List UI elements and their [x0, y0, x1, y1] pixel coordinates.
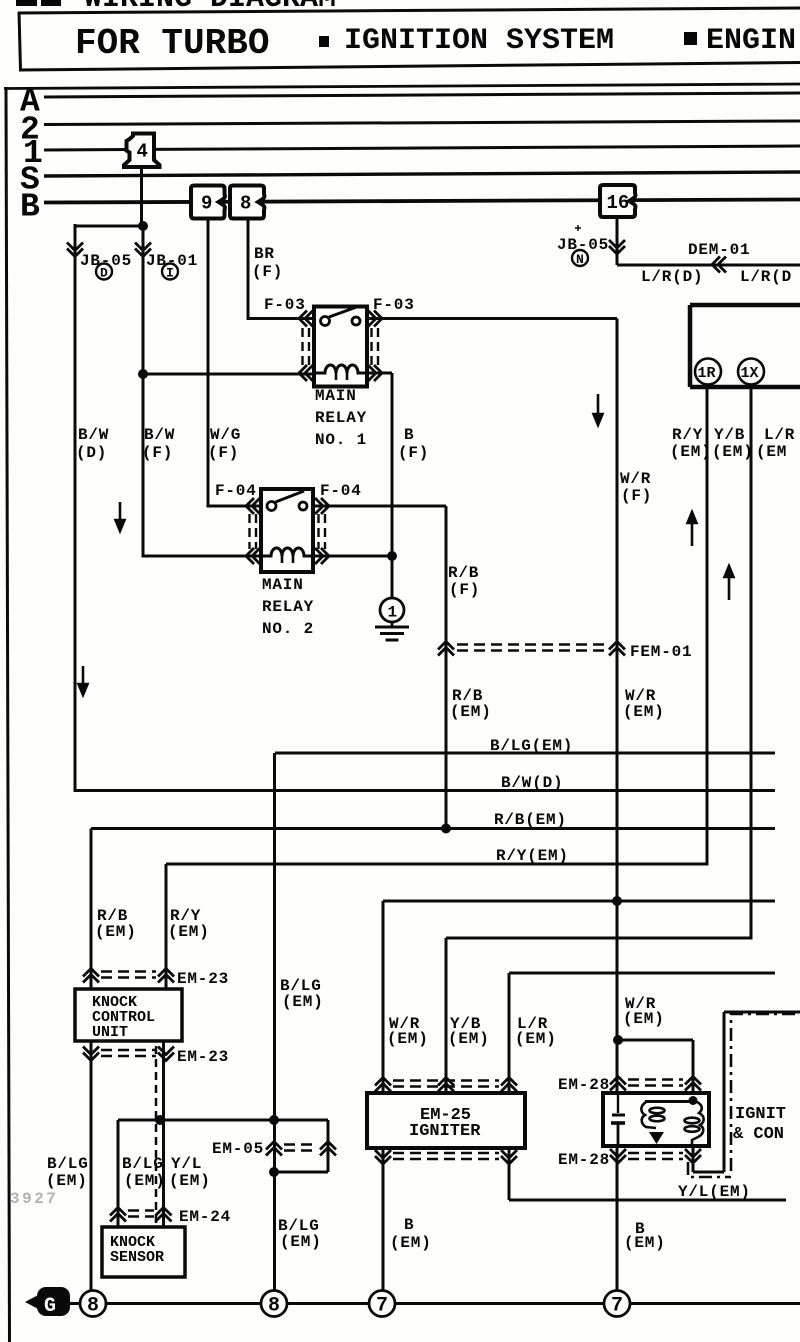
svg-text:(F): (F) — [252, 263, 283, 281]
svg-text:MAIN: MAIN — [315, 387, 357, 405]
svg-text:(EM): (EM) — [95, 923, 137, 941]
svg-text:Y/B: Y/B — [714, 426, 745, 444]
svg-text:(EM): (EM) — [624, 1234, 666, 1252]
svg-text:FOR TURBO: FOR TURBO — [75, 23, 269, 64]
svg-text:IGNITION SYSTEM: IGNITION SYSTEM — [344, 24, 614, 58]
svg-text:(F): (F) — [142, 444, 173, 462]
svg-text:(D): (D) — [76, 444, 107, 462]
svg-text:ENGIN: ENGIN — [706, 24, 796, 58]
svg-text:G: G — [44, 1295, 56, 1318]
svg-text:RELAY: RELAY — [315, 409, 367, 427]
svg-text:EM-05: EM-05 — [212, 1140, 264, 1158]
svg-text:F-03: F-03 — [264, 296, 306, 314]
svg-text:1X: 1X — [741, 365, 759, 382]
svg-text:R/Y(EM): R/Y(EM) — [496, 847, 569, 865]
svg-text:F-03: F-03 — [373, 296, 415, 314]
svg-text:16: 16 — [607, 192, 630, 214]
svg-text:D: D — [100, 266, 108, 281]
svg-text:F-04: F-04 — [215, 482, 257, 500]
svg-text:(EM): (EM) — [387, 1030, 429, 1048]
svg-text:8: 8 — [268, 1295, 280, 1318]
svg-text:EM-28: EM-28 — [558, 1076, 610, 1094]
svg-text:UNIT: UNIT — [92, 1024, 128, 1041]
svg-text:9: 9 — [201, 193, 212, 215]
svg-text:W/G: W/G — [210, 426, 241, 444]
svg-text:I: I — [166, 266, 174, 281]
svg-text:1R: 1R — [698, 365, 716, 382]
svg-text:IGNIT: IGNIT — [735, 1105, 786, 1124]
svg-text:L/R(D: L/R(D — [740, 268, 792, 286]
svg-text:Y/L: Y/L — [171, 1155, 202, 1173]
svg-text:(EM): (EM) — [670, 443, 712, 461]
svg-text:IGNITER: IGNITER — [409, 1122, 481, 1141]
svg-text:(EM): (EM) — [623, 703, 665, 721]
svg-text:B/W(D): B/W(D) — [501, 774, 563, 792]
svg-text:7: 7 — [376, 1295, 388, 1318]
svg-text:BR: BR — [254, 245, 275, 263]
svg-text:(EM): (EM) — [712, 443, 754, 461]
svg-text:(F): (F) — [449, 581, 480, 599]
svg-text:(EM): (EM) — [280, 1233, 322, 1251]
svg-text:FEM-01: FEM-01 — [630, 643, 692, 661]
svg-text:8: 8 — [240, 193, 251, 215]
svg-text:(F): (F) — [208, 444, 239, 462]
svg-text:B/LG: B/LG — [122, 1155, 164, 1173]
svg-text:RELAY: RELAY — [262, 598, 314, 616]
svg-text:(F): (F) — [621, 487, 652, 505]
svg-text:R/Y: R/Y — [672, 426, 703, 444]
svg-text:EM-24: EM-24 — [179, 1208, 231, 1226]
svg-text:SENSOR: SENSOR — [110, 1249, 164, 1266]
svg-text:(EM): (EM) — [169, 1172, 211, 1190]
svg-text:B/W: B/W — [144, 426, 175, 444]
svg-text:L/R: L/R — [764, 426, 795, 444]
svg-text:(EM): (EM) — [448, 1030, 490, 1048]
svg-text:(EM): (EM) — [282, 993, 324, 1011]
svg-text:B/LG(EM): B/LG(EM) — [490, 737, 573, 755]
svg-text:R/B: R/B — [448, 564, 479, 582]
svg-text:8: 8 — [87, 1295, 99, 1318]
svg-text:(EM): (EM) — [623, 1010, 665, 1028]
svg-text:(EM): (EM) — [124, 1172, 166, 1190]
svg-text:N: N — [576, 252, 584, 267]
svg-text:MAIN: MAIN — [262, 576, 304, 594]
svg-text:3927: 3927 — [10, 1190, 58, 1208]
svg-text:EM-23: EM-23 — [177, 970, 229, 988]
svg-text:(EM): (EM) — [390, 1234, 432, 1252]
svg-text:7: 7 — [611, 1295, 623, 1318]
svg-text:DEM-01: DEM-01 — [688, 241, 750, 259]
svg-text:(F): (F) — [398, 444, 429, 462]
svg-text:F-04: F-04 — [320, 482, 362, 500]
svg-text:B/LG: B/LG — [47, 1155, 89, 1173]
svg-text:Y/L(EM): Y/L(EM) — [678, 1183, 751, 1201]
svg-text:(EM): (EM) — [515, 1030, 557, 1048]
svg-text:L/R(D): L/R(D) — [641, 268, 703, 286]
svg-text:(EM): (EM) — [168, 923, 210, 941]
svg-text:(EM: (EM — [756, 443, 787, 461]
svg-text:(EM): (EM) — [46, 1172, 88, 1190]
svg-text:& CON: & CON — [733, 1125, 784, 1144]
svg-text:R/B(EM): R/B(EM) — [494, 811, 567, 829]
svg-text:EM-28: EM-28 — [558, 1151, 610, 1169]
svg-text:NO. 2: NO. 2 — [262, 620, 314, 638]
svg-text:B: B — [404, 426, 414, 444]
svg-text:B: B — [20, 189, 40, 226]
svg-text:4: 4 — [137, 141, 148, 163]
svg-text:NO. 1: NO. 1 — [315, 431, 367, 449]
svg-text:B/W: B/W — [78, 426, 109, 444]
svg-text:W/R: W/R — [620, 470, 651, 488]
svg-text:1: 1 — [388, 604, 398, 622]
svg-text:B: B — [404, 1216, 414, 1234]
svg-text:(EM): (EM) — [450, 703, 492, 721]
svg-text:EM-23: EM-23 — [177, 1048, 229, 1066]
